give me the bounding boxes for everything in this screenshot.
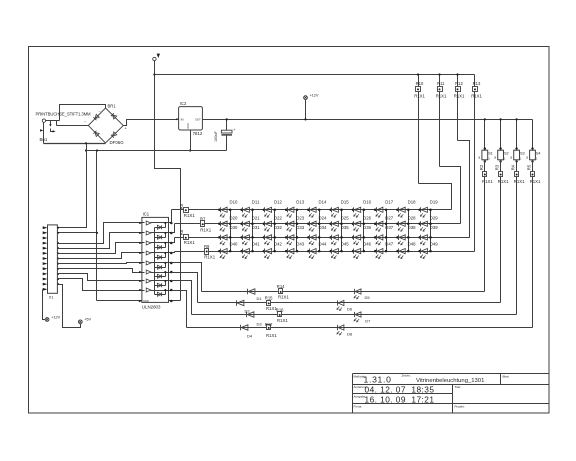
svg-text:+: + <box>233 128 235 132</box>
svg-text:+5V: +5V <box>84 318 91 322</box>
svg-text:D2: D2 <box>245 309 251 314</box>
IC1 driver channel 8 <box>139 288 172 296</box>
svg-text:D31: D31 <box>252 225 260 230</box>
switch S3 <box>510 147 524 162</box>
resistor R15 <box>265 296 278 312</box>
wire matrix row3 rail <box>175 237 470 239</box>
svg-text:R1X1: R1X1 <box>514 179 525 184</box>
svg-text:+12V: +12V <box>310 93 319 97</box>
LED D21 <box>240 216 260 232</box>
wire X1 pin9 to IC1 in6 <box>58 269 142 273</box>
resistor R17 <box>265 322 278 338</box>
matrix column 7 cathode bus <box>363 210 365 252</box>
wire IC1 out1 to row1 <box>171 210 173 223</box>
wire matrix row1 rail <box>172 209 452 211</box>
X1 pin 11 <box>43 278 48 281</box>
wire +12V rail to S4 <box>532 120 534 151</box>
svg-text:D33: D33 <box>296 225 304 230</box>
wire IC1 out3 to row3 <box>172 238 175 243</box>
wire +12V rail to S1 <box>484 118 486 150</box>
svg-text:D5: D5 <box>365 295 371 300</box>
svg-text:D7: D7 <box>365 318 371 323</box>
IC1 driver channel 7 <box>139 279 172 295</box>
LED D27 <box>374 216 394 232</box>
LED D17 <box>374 199 394 217</box>
LED D24 <box>307 216 327 232</box>
wire X1 pin13 to +12V <box>43 290 46 320</box>
X1 pin 12 <box>43 283 48 286</box>
svg-text:D47: D47 <box>385 242 393 247</box>
LED D14 <box>307 199 327 217</box>
svg-text:R1X1: R1X1 <box>436 93 447 98</box>
wire X1 pin11 to IC1 in8 <box>58 279 142 291</box>
LED D38 <box>396 225 416 245</box>
svg-text:R1X1: R1X1 <box>184 213 196 218</box>
IC1 driver channel 6 <box>139 270 172 286</box>
svg-text:R1X1: R1X1 <box>277 318 288 323</box>
matrix column 3 cathode bus <box>274 210 276 252</box>
wire lamp row 1 <box>202 291 485 293</box>
svg-text:R15: R15 <box>265 296 273 301</box>
svg-text:R17: R17 <box>265 322 273 327</box>
wire Bu1 tip to bridge top <box>60 105 106 121</box>
svg-text:a: a <box>526 155 528 159</box>
svg-text:D11: D11 <box>252 199 260 204</box>
IC1 ULN2803 driver <box>142 211 169 309</box>
svg-text:IC2: IC2 <box>180 101 187 106</box>
wire Bu1 sleeve to bridge bottom <box>44 143 106 145</box>
connector Bu1 (PRINTBUCHSE_STIFT1.3MM) <box>36 111 92 143</box>
svg-text:R1X1: R1X1 <box>454 93 465 98</box>
LED D44 <box>307 242 327 259</box>
matrix column 2 cathode bus <box>252 210 254 252</box>
svg-text:Bu1: Bu1 <box>40 137 48 142</box>
+12V supply symbol top <box>304 93 319 120</box>
junction +V / top rail <box>153 73 155 75</box>
IC1 driver channel 3 <box>139 241 172 258</box>
svg-text:D17: D17 <box>385 199 393 204</box>
resistor R14 <box>277 284 290 300</box>
LED D48 <box>396 242 416 259</box>
IC1 driver channel 4 <box>139 251 172 268</box>
LED D43 <box>285 242 305 259</box>
svg-text:D45: D45 <box>341 242 349 247</box>
LED D18 <box>396 199 416 217</box>
svg-text:S4: S4 <box>536 152 541 156</box>
svg-text:D34: D34 <box>319 225 327 230</box>
svg-text:~: ~ <box>99 109 101 113</box>
LED D29 <box>418 216 438 232</box>
LED D37 <box>374 225 394 245</box>
svg-text:R12: R12 <box>455 81 463 86</box>
wire X1 pin2 to GND vertical <box>58 232 97 234</box>
svg-text:D20: D20 <box>230 216 238 221</box>
matrix column 4 cathode bus <box>296 210 298 252</box>
svg-text:IC1: IC1 <box>143 211 150 216</box>
svg-text:D44: D44 <box>319 242 327 247</box>
wire R11 to row2 end <box>440 167 461 224</box>
svg-text:D29: D29 <box>430 216 438 221</box>
svg-text:R2: R2 <box>479 164 484 170</box>
LED D20 <box>218 216 238 232</box>
LED D36 <box>352 225 372 245</box>
switch S4 <box>526 147 540 162</box>
svg-text:D40: D40 <box>230 242 238 247</box>
LED D34 <box>307 225 327 245</box>
diode D4 <box>241 325 253 339</box>
matrix column 10 cathode bus <box>430 210 432 252</box>
resistor R13 <box>471 75 482 252</box>
wire IC1 out7 staircase to lamp row 3 <box>172 281 192 315</box>
wire X1 pin10 to IC1 in7 <box>58 274 142 281</box>
svg-text:D27: D27 <box>385 216 393 221</box>
svg-text:R1X1: R1X1 <box>204 255 216 260</box>
wire X1 pin6 to IC1 in3 <box>58 243 142 254</box>
wire Bu1 switch to bridge left <box>57 125 89 127</box>
LED D39 <box>418 225 438 245</box>
X1 pin connection dots <box>57 227 59 285</box>
svg-text:R10: R10 <box>416 81 424 86</box>
svg-text:D8: D8 <box>347 332 353 337</box>
wire GND reg vertical to ULN GND <box>96 151 98 301</box>
+5V supply symbol <box>78 318 91 324</box>
IC1 driver channel 5 <box>139 261 172 277</box>
svg-text:R1X1: R1X1 <box>471 93 482 98</box>
svg-text:D36: D36 <box>363 225 371 230</box>
wire IC2 GND down <box>189 131 191 152</box>
svg-text:R1X1: R1X1 <box>200 227 212 232</box>
LED D35 <box>329 225 349 245</box>
wire R2 down to lamp row 1 <box>484 177 486 292</box>
resistor R16 <box>276 307 289 323</box>
LED D22 <box>263 216 283 232</box>
wire IC1 out5 staircase to lamp row 1 <box>172 263 202 292</box>
LED D31 <box>240 225 260 245</box>
svg-text:PRINTBUCHSE_STIFT1.3MM: PRINTBUCHSE_STIFT1.3MM <box>36 111 92 116</box>
svg-text:ULN2803: ULN2803 <box>142 305 161 310</box>
svg-text:D39: D39 <box>430 225 438 230</box>
wire R5 down to lamp row 4 <box>532 177 534 328</box>
wire X1 pin12 to +5V <box>58 285 81 328</box>
wire IC1 out4 to row4 <box>172 252 175 253</box>
LED D46 <box>352 242 372 259</box>
wire matrix row2 rail <box>175 223 461 225</box>
svg-text:S1: S1 <box>488 152 493 156</box>
wire X1 pin4 to IC1 in1 <box>58 223 142 244</box>
wire IC2 OUT +12V rail <box>203 119 533 121</box>
LED D25 <box>329 216 349 232</box>
LED D40 <box>218 242 238 259</box>
matrix column 9 cathode bus <box>408 210 410 252</box>
wire lamp row 2 <box>198 302 501 304</box>
resistor R3 (column) <box>495 160 509 184</box>
svg-text:+12V: +12V <box>51 315 60 319</box>
svg-text:1.31.0: 1.31.0 <box>364 374 392 384</box>
resistor R4 (column) <box>511 160 525 184</box>
svg-text:R13: R13 <box>473 81 481 86</box>
wire X1 pin5 to IC1 in2 <box>58 233 142 249</box>
svg-text:D4: D4 <box>247 333 253 338</box>
svg-text:D1: D1 <box>257 296 263 301</box>
svg-text:R5: R5 <box>179 203 184 209</box>
LED D16 <box>352 199 372 217</box>
svg-text:a: a <box>494 155 496 159</box>
X1 pin 1 <box>43 226 48 229</box>
wire lamp row 4 <box>187 327 533 329</box>
LED D19 <box>418 199 438 217</box>
svg-text:R3: R3 <box>495 164 500 170</box>
resistor R12 <box>454 73 465 140</box>
+12V supply symbol bottom <box>45 315 60 321</box>
svg-text:IN: IN <box>181 118 184 122</box>
wire +V node down / jog to x180 <box>155 61 181 301</box>
svg-text:D37: D37 <box>385 225 393 230</box>
LED D11 <box>240 199 260 217</box>
svg-text:R1X1: R1X1 <box>184 240 196 245</box>
svg-text:D30: D30 <box>230 225 238 230</box>
X1 pin 7 <box>43 257 48 260</box>
LED D26 <box>352 216 372 232</box>
svg-text:X1: X1 <box>49 296 54 300</box>
wire GND raw drop to X1 pin1 <box>58 144 87 228</box>
svg-text:Projekt:: Projekt: <box>455 404 465 408</box>
wire matrix row4 rail <box>175 251 475 253</box>
LED D41 <box>240 242 260 259</box>
LED D49 <box>418 242 438 259</box>
svg-text:D43: D43 <box>296 242 304 247</box>
svg-text:R1X1: R1X1 <box>414 93 425 98</box>
resistor R5 <box>179 203 195 218</box>
svg-text:D14: D14 <box>319 199 327 204</box>
wire R10 to row1 end <box>419 184 452 210</box>
svg-text:R8: R8 <box>179 229 184 235</box>
svg-text:R9: R9 <box>204 244 210 249</box>
resistor R11 <box>436 73 447 166</box>
svg-text:BR1: BR1 <box>108 103 117 108</box>
LED D12 <box>263 199 283 217</box>
X1 pin 5 <box>43 247 48 250</box>
wire IC1 out8 staircase to lamp row 4 <box>172 291 187 328</box>
X1 pin 13 <box>43 288 48 291</box>
wire lamp row 3 <box>192 314 517 316</box>
svg-text:OUT: OUT <box>195 118 201 122</box>
LED D28 <box>396 216 416 232</box>
capacitor C1 100uF <box>214 118 236 150</box>
svg-text:a: a <box>478 155 480 159</box>
IC1 GND pin wire <box>97 300 181 303</box>
matrix column 6 cathode bus <box>341 210 343 252</box>
LED D33 <box>285 225 305 245</box>
svg-text:D26: D26 <box>363 216 371 221</box>
LED D13 <box>285 199 305 217</box>
svg-text:D3: D3 <box>257 322 263 327</box>
LED D42 <box>263 242 283 259</box>
matrix column 1 cathode bus <box>230 210 232 252</box>
IC1 driver channel 2 <box>139 231 172 248</box>
svg-text:R1X1: R1X1 <box>482 179 493 184</box>
LED D47 <box>374 242 394 259</box>
X1 pin 10 <box>43 273 48 276</box>
svg-text:Titel:: Titel: <box>455 385 462 389</box>
resistor R8 <box>179 229 195 245</box>
frame border <box>29 47 550 414</box>
diode D3 <box>247 312 263 327</box>
svg-text:R16: R16 <box>276 307 284 312</box>
svg-text:16. 10. 09 17:21: 16. 10. 09 17:21 <box>365 394 435 404</box>
LED D30 <box>218 225 238 245</box>
svg-text:Firma:: Firma: <box>354 404 363 408</box>
svg-text:D41: D41 <box>252 242 260 247</box>
wire bridge + output to IC2 IN <box>124 120 177 126</box>
svg-text:100uF: 100uF <box>214 131 218 142</box>
svg-text:04. 12. 07 18:35: 04. 12. 07 18:35 <box>365 385 435 395</box>
svg-text:DF06G: DF06G <box>110 140 125 145</box>
resistor R5 (column) <box>527 160 541 184</box>
svg-text:S3: S3 <box>520 152 525 156</box>
wire top rail to R10-R13 <box>155 74 475 76</box>
bridge rectifier BR1 DF06G <box>84 103 128 145</box>
svg-text:D32: D32 <box>274 225 282 230</box>
diode D2 <box>237 300 251 313</box>
LED D45 <box>329 242 349 259</box>
svg-text:D48: D48 <box>408 242 416 247</box>
LED D15 <box>329 199 349 217</box>
connector X1 <box>48 225 58 300</box>
svg-text:7812: 7812 <box>193 131 203 136</box>
X1 pin 9 <box>43 267 48 270</box>
svg-text:GND: GND <box>143 299 149 303</box>
svg-text:D12: D12 <box>274 199 282 204</box>
wire X1 pin8 to IC1 in5 <box>58 263 142 264</box>
svg-text:R1X1: R1X1 <box>278 294 289 299</box>
svg-text:D24: D24 <box>319 216 327 221</box>
svg-text:D35: D35 <box>341 225 349 230</box>
svg-text:R5: R5 <box>527 164 532 170</box>
svg-text:Vitrinenbeleuchtung_1301: Vitrinenbeleuchtung_1301 <box>416 378 484 384</box>
title block <box>353 374 549 413</box>
svg-text:R14: R14 <box>277 284 285 289</box>
LED D32 <box>263 225 283 245</box>
svg-text:D21: D21 <box>252 216 260 221</box>
LED D5 <box>354 289 370 300</box>
svg-text:D19: D19 <box>430 199 438 204</box>
svg-text:D46: D46 <box>363 242 371 247</box>
svg-text:R1X1: R1X1 <box>530 179 541 184</box>
svg-text:D13: D13 <box>296 199 304 204</box>
svg-text:D28: D28 <box>408 216 416 221</box>
svg-text:D42: D42 <box>274 242 282 247</box>
wire IC1 out2 to row2 <box>172 224 175 233</box>
X1 pin 2 <box>43 231 48 234</box>
GND rail wire <box>85 149 227 151</box>
switch S2 <box>494 147 508 162</box>
wire +12V rail to S2 <box>500 118 502 150</box>
IC1 driver channel 1 <box>139 221 172 238</box>
resistor R10 <box>414 73 425 183</box>
svg-text:Blatt:: Blatt: <box>503 375 510 379</box>
LED D10 <box>218 199 238 217</box>
svg-text:D49: D49 <box>430 242 438 247</box>
X1 pin 3 <box>43 237 48 240</box>
svg-text:D16: D16 <box>363 199 371 204</box>
svg-text:D22: D22 <box>274 216 282 221</box>
svg-text:R11: R11 <box>437 81 445 86</box>
X1 pin 8 <box>43 262 48 265</box>
svg-text:D25: D25 <box>341 216 349 221</box>
svg-text:D15: D15 <box>341 199 349 204</box>
IC2 voltage regulator 7812 <box>176 101 203 136</box>
svg-text:GND: GND <box>187 123 190 129</box>
matrix column 5 cathode bus <box>319 210 321 252</box>
resistor R9 <box>204 244 216 260</box>
wire X1 pin7 to IC1 in4 <box>58 253 142 259</box>
wire R4 down to lamp row 3 <box>516 177 518 315</box>
wire R12 to row3 end <box>458 141 470 238</box>
LED D23 <box>285 216 305 232</box>
svg-text:~: ~ <box>84 119 86 123</box>
svg-text:R7: R7 <box>200 217 206 222</box>
wire IC1 out6 staircase to lamp row 2 <box>172 273 198 303</box>
X1 pin 6 <box>43 252 48 255</box>
svg-text:D6: D6 <box>347 307 353 312</box>
svg-text:D38: D38 <box>408 225 416 230</box>
svg-text:R1X1: R1X1 <box>266 333 277 338</box>
LED D8 <box>337 325 353 337</box>
svg-text:R4: R4 <box>511 164 516 170</box>
X1 pin 4 <box>43 242 48 245</box>
switch S1 <box>478 147 492 162</box>
svg-text:D10: D10 <box>230 199 238 204</box>
junction bridge bottom / GND drop <box>85 142 87 144</box>
matrix column 8 cathode bus <box>386 210 388 252</box>
node +V terminal <box>153 54 160 61</box>
LED D6 <box>337 300 353 311</box>
svg-text:D18: D18 <box>408 199 416 204</box>
svg-text:R1X1: R1X1 <box>498 179 509 184</box>
diode D1 <box>248 289 263 301</box>
svg-text:Zeichn.:: Zeichn.: <box>402 374 412 378</box>
svg-text:a: a <box>510 155 512 159</box>
wire R3 down to lamp row 2 <box>500 177 502 303</box>
svg-text:D23: D23 <box>296 216 304 221</box>
svg-text:S2: S2 <box>504 152 509 156</box>
LED D7 <box>354 312 371 323</box>
wire +12V rail to S3 <box>516 118 518 150</box>
resistor R2 (column) <box>479 160 493 184</box>
resistor R7 <box>200 217 212 233</box>
